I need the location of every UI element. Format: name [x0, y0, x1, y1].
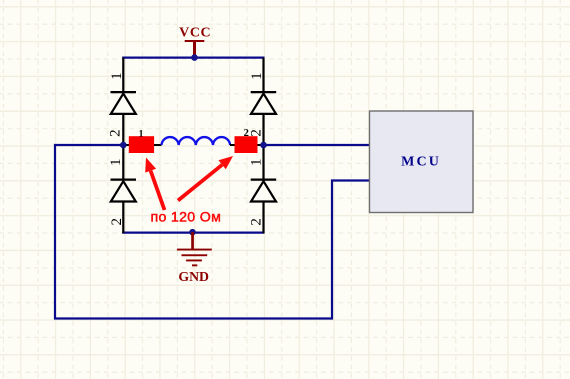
wire bottom rail [122, 232, 264, 234]
wire stub right of R2 [258, 144, 264, 146]
diode D4 (lower right) [251, 145, 277, 233]
svg-text:2: 2 [107, 129, 123, 137]
ground GND [177, 232, 212, 284]
wire mid right to MCU [264, 144, 370, 146]
resistor R2 (right red box) [235, 136, 258, 153]
wire left loop to bottom [55, 145, 370, 319]
junction at VCC [191, 54, 198, 61]
svg-text:VCC: VCC [179, 25, 211, 40]
svg-text:2: 2 [249, 218, 265, 226]
annotation arrow right [178, 156, 233, 201]
wire stub left of R1 [123, 144, 129, 146]
svg-text:1: 1 [108, 158, 124, 166]
diode D1 (upper left) [111, 58, 137, 145]
resistor R1 (left red box) [129, 136, 154, 153]
wire stub L1 to R2 [230, 144, 235, 146]
svg-text:1: 1 [139, 129, 144, 139]
svg-text:1: 1 [249, 158, 265, 166]
svg-text:по 120 Ом: по 120 Ом [151, 210, 222, 226]
junction left mid [120, 142, 127, 149]
svg-text:GND: GND [178, 269, 209, 284]
wire stub R1 to L1 [154, 144, 162, 146]
diode D2 (lower left) [111, 145, 137, 233]
junction at GND [189, 229, 196, 236]
svg-text:MCU: MCU [401, 155, 441, 170]
svg-text:1: 1 [109, 72, 125, 80]
svg-text:1: 1 [249, 72, 265, 80]
diode D3 (upper right) [251, 58, 277, 145]
annotation arrow left [145, 158, 164, 211]
MCU U1 box [370, 111, 474, 213]
svg-text:2: 2 [109, 218, 125, 226]
wire top rail [122, 56, 264, 58]
power VCC [179, 25, 211, 57]
junction right mid [260, 142, 267, 149]
svg-text:2: 2 [249, 129, 265, 137]
inductor L1 [162, 137, 231, 145]
